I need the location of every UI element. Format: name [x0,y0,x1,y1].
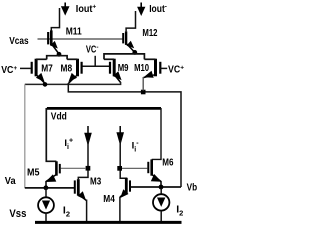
wire rail B sources M8 M10 [68,83,181,187]
svg-text:M4: M4 [103,194,115,205]
wire drain M11 to Iout+ [51,8,59,31]
wire Ii- node to M4 drain [120,140,126,180]
svg-text:Iout-: Iout- [149,4,167,16]
wire hat M7 M8 drains [47,56,67,60]
wire M4 source to Vss [119,197,121,222]
wire drain M12 to Iout- [126,11,135,31]
node M7 source on rail A [43,82,48,87]
wire M5 gate to Ii+ node [61,167,86,169]
wire VC+ right to M10 gate [160,67,167,69]
svg-text:M12: M12 [142,28,157,39]
wire hat M9 M10 drains [104,54,144,60]
transistor M12 [123,31,135,52]
node under M11 [57,52,62,57]
transistor M10 [143,59,160,78]
svg-text:M3: M3 [90,176,102,187]
wire node Va line [25,187,74,189]
svg-text:M7: M7 [41,63,53,74]
transistor M4 [120,178,130,198]
wire VC- gate line M8 M9 [82,65,110,67]
node Vb M6 drain [159,185,164,190]
svg-text:M8: M8 [61,63,73,74]
wire M3 source to Vss [86,200,88,223]
svg-text:M10: M10 [134,63,149,74]
current source I2 right [153,188,169,222]
wire rail A drop to Va [24,84,26,187]
current arrow Ii- [116,126,124,146]
svg-text:Va: Va [5,175,16,187]
transistor M9 [104,59,122,83]
svg-text:M5: M5 [27,168,40,179]
node M10 source on rail B [141,90,146,95]
power rail Vss [35,221,182,224]
svg-text:M11: M11 [66,27,82,38]
svg-text:Vss: Vss [9,208,26,220]
svg-text:M9: M9 [118,63,129,74]
transistor M7 [32,59,47,84]
svg-text:M6: M6 [162,158,174,169]
wire Vdd right leg to M6 source [152,108,161,159]
transistor M3 [75,179,87,200]
current source I2 left [38,188,54,222]
wire M6 gate to Ii- node [122,167,147,169]
current arrow Iout- [137,3,145,17]
svg-text:Vdd: Vdd [51,111,67,122]
node under M12 [132,50,137,55]
wire VC- stub [94,56,96,67]
current arrow Iout+ [61,3,70,16]
wire rail A sources M7 M9 [25,82,121,84]
wire Vdd left leg to M5 source [46,108,56,161]
wire Ii+ node to M3 drain [78,140,88,179]
wire M7 source drop [44,83,46,85]
wire node Vb line [131,186,181,188]
current arrow Ii+ [84,126,92,146]
svg-text:Vcas: Vcas [9,36,29,47]
node Va M5 drain [44,185,49,190]
transistor M8 [67,59,82,84]
transistor M6 [148,159,161,187]
transistor M5 [46,161,60,188]
transistor M11 [48,30,59,54]
wire VC+ left to M7 gate [20,67,31,69]
node Ii- M6 gate tap [117,166,122,171]
wire M10 source drop [142,77,144,91]
power rail Vdd [47,107,161,110]
svg-text:Vb: Vb [187,181,198,193]
wire Vcas gate line [38,38,124,40]
node Ii+ M5 gate tap [86,166,91,171]
